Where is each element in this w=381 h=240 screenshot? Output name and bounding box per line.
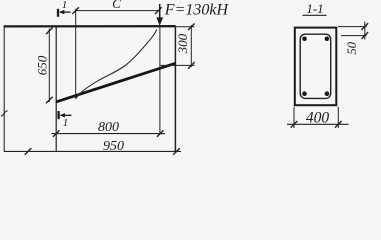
tick 400 left xyxy=(291,121,298,128)
section title underline xyxy=(303,14,327,16)
column left face xyxy=(3,25,5,151)
svg-text:C: C xyxy=(112,0,121,11)
break mark on column left face xyxy=(1,111,8,117)
svg-text:300: 300 xyxy=(175,33,190,54)
dimension 400 line xyxy=(287,123,349,125)
tick 50 bottom xyxy=(362,32,369,39)
dimension 650 line xyxy=(48,29,50,103)
tick 950 left xyxy=(25,148,32,155)
50 dim lower extension xyxy=(341,35,367,37)
force F arrow xyxy=(159,4,161,19)
50 dim top extension xyxy=(338,26,367,28)
tick C left xyxy=(72,7,79,14)
tick 300 top xyxy=(188,24,195,31)
column right face / corbel root xyxy=(55,27,57,152)
section outer rectangle xyxy=(295,28,337,106)
300 dim top extension xyxy=(176,26,195,28)
400 dim right extension xyxy=(337,107,339,128)
svg-text:950: 950 xyxy=(103,139,124,154)
tick C right xyxy=(155,7,162,14)
corbel tip face / 950 extension xyxy=(174,26,176,151)
svg-text:1-1: 1-1 xyxy=(306,1,323,16)
tick 300 bottom xyxy=(188,62,195,69)
dimension 50 line xyxy=(364,22,366,40)
section marker 1 top arrow xyxy=(63,11,71,13)
300 dim bottom extension xyxy=(161,64,195,66)
rebar dot bottom-right xyxy=(325,91,330,96)
tick 800 right xyxy=(157,130,164,137)
svg-text:650: 650 xyxy=(35,55,50,75)
svg-text:400: 400 xyxy=(306,110,330,127)
dimension C line xyxy=(76,10,159,12)
tick 650 top xyxy=(46,28,53,35)
svg-text:50: 50 xyxy=(345,41,359,54)
rebar dot bottom-left xyxy=(302,91,307,96)
dimension 950 line xyxy=(4,150,181,152)
dimension 300 line xyxy=(190,25,192,67)
tick 650 bottom xyxy=(46,97,53,104)
top edge of column and corbel xyxy=(4,25,176,27)
force line / 800 extension (vertical) xyxy=(159,27,161,136)
corbel underside (thick) xyxy=(56,63,175,102)
svg-text:1: 1 xyxy=(63,117,69,129)
svg-text:1: 1 xyxy=(62,0,68,11)
crack curve xyxy=(76,30,156,99)
section marker 1 top stroke xyxy=(57,9,59,17)
tick 800 left xyxy=(53,130,60,137)
rebar dot top-left xyxy=(302,37,307,42)
section marker 1 bottom arrow xyxy=(63,114,72,116)
dimension 800 line xyxy=(52,133,166,135)
400 dim left extension xyxy=(293,107,295,128)
tick 950 right xyxy=(173,148,180,155)
stirrup (inner rounded rectangle) xyxy=(300,34,331,98)
tick 50 top xyxy=(362,23,369,30)
section line 1-1 cut (thin vertical) xyxy=(75,9,77,99)
rebar dot top-right xyxy=(325,37,330,42)
svg-text:800: 800 xyxy=(98,120,119,135)
paper background xyxy=(0,0,381,157)
svg-text:F=130kH: F=130kH xyxy=(164,1,230,18)
tick 400 right xyxy=(335,121,342,128)
section marker 1 bottom stroke xyxy=(57,111,59,119)
